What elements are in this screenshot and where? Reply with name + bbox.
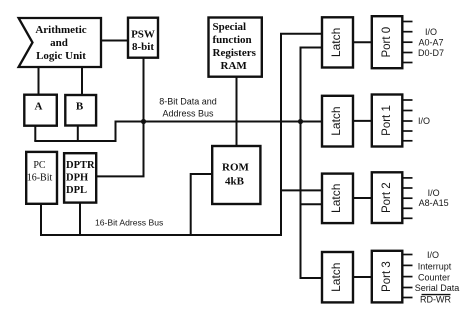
svg-text:Serial Data: Serial Data	[415, 283, 460, 293]
Port 0 box	[372, 16, 403, 68]
svg-text:PC: PC	[33, 160, 46, 171]
svg-text:A: A	[35, 101, 43, 113]
Port 2 pin labels	[419, 188, 449, 208]
wire ALU to A	[38, 67, 40, 95]
wire 16-bit address bus to latch 1	[40, 34, 322, 235]
svg-text:Latch: Latch	[329, 263, 343, 292]
latch 3 box	[322, 174, 353, 224]
svg-text:RD-WR: RD-WR	[420, 295, 451, 305]
accumulator A box	[24, 95, 57, 126]
DPTR label	[66, 160, 95, 196]
wire internal data bus to latch 4	[301, 48, 323, 279]
wire ALU to B	[81, 67, 83, 95]
junction PSW-bus	[141, 119, 146, 124]
Port 2 pin stubs	[402, 178, 412, 218]
PSW register box	[128, 18, 158, 58]
svg-text:function: function	[213, 34, 252, 46]
ALU label	[35, 24, 86, 62]
svg-text:Registers: Registers	[213, 47, 257, 59]
wire bus A to latch 3	[281, 189, 322, 191]
SFR RAM label	[213, 21, 257, 72]
svg-text:16-Bit Adress Bus: 16-Bit Adress Bus	[95, 218, 163, 228]
ALU U1 box	[19, 18, 101, 67]
svg-text:A8-A15: A8-A15	[419, 198, 449, 208]
svg-text:Port 1: Port 1	[381, 105, 393, 136]
svg-text:Port 3: Port 3	[381, 261, 393, 292]
latch 2 box	[322, 96, 353, 147]
svg-text:Arithmetic: Arithmetic	[35, 24, 86, 36]
svg-text:I/O: I/O	[427, 250, 439, 260]
Port 2 box	[372, 172, 403, 223]
Port 3 pin stubs	[402, 255, 412, 298]
wire latch 4 to Port 3	[353, 276, 372, 278]
Port 0 pin stubs	[402, 22, 412, 63]
svg-text:A0-A7: A0-A7	[418, 38, 443, 48]
svg-text:D0-D7: D0-D7	[418, 48, 444, 58]
DPTR box	[64, 153, 96, 202]
wire A down	[34, 126, 36, 141]
Port 1 box	[372, 95, 403, 147]
8-bit bus label	[159, 97, 217, 119]
latch 1 box	[322, 17, 353, 67]
wire latch 1 to Port 0	[353, 41, 372, 43]
wire PC down	[40, 204, 42, 235]
svg-text:16-Bit: 16-Bit	[27, 173, 53, 184]
Port 0 pin labels	[418, 27, 444, 58]
Port 3 box	[372, 251, 403, 303]
svg-text:I/O: I/O	[428, 188, 440, 198]
Port 3 pin labels	[415, 250, 460, 305]
latch 4 box	[322, 252, 353, 302]
svg-text:B: B	[76, 101, 84, 113]
Port 1 pin stubs	[402, 100, 412, 141]
wire PSW down to DPTR	[96, 58, 143, 177]
svg-text:DPH: DPH	[66, 173, 88, 184]
svg-text:8-bit: 8-bit	[132, 41, 154, 53]
register B box	[65, 95, 96, 126]
PC 16-bit box	[26, 152, 57, 204]
ROM 4kB box	[212, 146, 260, 204]
svg-text:4kB: 4kB	[225, 176, 245, 188]
svg-text:Latch: Latch	[329, 184, 343, 213]
svg-text:Counter: Counter	[418, 273, 450, 283]
Special function Registers RAM box	[209, 18, 262, 77]
ROM label	[222, 162, 250, 188]
svg-text:DPL: DPL	[66, 185, 87, 196]
wire latch 3 to Port 2	[353, 197, 372, 199]
svg-text:DPTR: DPTR	[66, 160, 95, 171]
svg-text:RAM: RAM	[221, 60, 248, 72]
svg-text:Interrupt: Interrupt	[418, 262, 452, 272]
wire ALU to PSW	[101, 40, 128, 42]
wire 8-bit data and address bus	[34, 122, 322, 142]
wire ROM to 16-bit bus	[191, 174, 213, 235]
svg-text:I/O: I/O	[418, 116, 430, 126]
svg-text:ROM: ROM	[222, 162, 250, 174]
svg-text:Latch: Latch	[329, 106, 343, 135]
junction busB-bus	[298, 119, 303, 124]
PSW label	[131, 29, 155, 53]
svg-text:Address Bus: Address Bus	[162, 108, 214, 118]
PC label	[27, 160, 53, 184]
svg-text:8-Bit Data and: 8-Bit Data and	[159, 97, 217, 107]
svg-text:Port 2: Port 2	[381, 182, 393, 213]
svg-text:PSW: PSW	[131, 29, 155, 41]
svg-text:Latch: Latch	[329, 28, 343, 57]
wire DPTR down	[79, 203, 81, 235]
RD-WR overline	[422, 294, 451, 296]
wire latch 2 to Port 1	[353, 120, 372, 122]
svg-text:and: and	[50, 37, 68, 49]
wire B down	[77, 126, 79, 142]
svg-text:Special: Special	[213, 21, 247, 33]
wire bus B to latch 3	[301, 203, 323, 205]
svg-text:Logic Unit: Logic Unit	[36, 50, 86, 62]
svg-text:I/O: I/O	[425, 27, 437, 37]
svg-text:Port 0: Port 0	[381, 27, 393, 58]
wire SFR RAM to ROM	[236, 77, 238, 146]
